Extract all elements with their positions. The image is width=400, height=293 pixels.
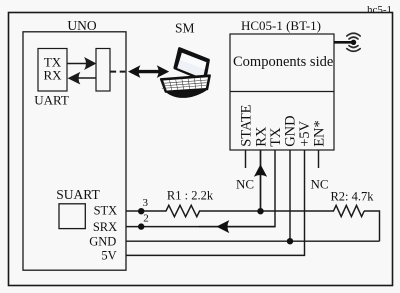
antenna feed wire <box>334 41 353 44</box>
svg-text:hc5-1: hc5-1 <box>367 4 392 16</box>
svg-text:UART: UART <box>34 93 69 108</box>
wire SRX from TX <box>126 226 275 228</box>
svg-text:GND: GND <box>89 234 116 248</box>
pin wire EN* <box>318 150 320 168</box>
svg-text:STX: STX <box>94 204 118 218</box>
arrowhead RX left <box>68 72 81 85</box>
pin wire RX with up arrow <box>254 150 267 211</box>
laptop SM icon <box>161 49 210 98</box>
svg-text:Components side: Components side <box>233 54 333 70</box>
node pin 2 <box>138 223 144 229</box>
pin wire GND <box>289 150 291 241</box>
keyboard grid <box>162 78 207 90</box>
svg-text:R1 : 2.2k: R1 : 2.2k <box>167 188 214 202</box>
HC05 divider <box>230 91 334 93</box>
pin wire STATE <box>245 150 247 168</box>
svg-text:5V: 5V <box>101 249 116 263</box>
wire R2 down to GND line <box>364 211 380 241</box>
HC05 box <box>230 34 334 150</box>
dashed wire USB to wireless arrow <box>111 71 127 73</box>
svg-text:SUART: SUART <box>56 187 100 202</box>
double arrow to laptop <box>128 65 169 78</box>
resistor R1 <box>166 205 200 216</box>
svg-text:EN*: EN* <box>311 120 327 147</box>
USB interface box <box>96 49 110 92</box>
UNO box <box>23 32 126 270</box>
pin wire +5V <box>126 150 305 255</box>
wire USB box to RX <box>78 77 96 79</box>
node RX junction <box>257 208 263 214</box>
pin wire TX <box>199 150 275 227</box>
svg-text:HC05-1 (BT-1): HC05-1 (BT-1) <box>241 18 321 33</box>
node GND junction <box>287 238 293 244</box>
svg-text:3: 3 <box>142 197 148 209</box>
svg-text:NC: NC <box>310 177 328 192</box>
wire STX to R1 <box>126 210 167 212</box>
laptop base <box>164 88 207 98</box>
arrowhead TX right <box>84 57 96 70</box>
antenna symbol <box>347 33 360 51</box>
UART TX/RX box <box>38 49 67 92</box>
svg-text:RX: RX <box>43 68 62 83</box>
svg-text:SRX: SRX <box>93 220 117 234</box>
svg-text:2: 2 <box>143 212 149 224</box>
wire TX to USB box <box>67 63 86 65</box>
node pin 3 <box>138 208 144 214</box>
arrowhead SRX left <box>216 220 229 233</box>
svg-text:STATE: STATE <box>238 104 254 146</box>
wire R1 to RX node <box>199 210 334 212</box>
lid <box>175 49 209 81</box>
svg-text:SM: SM <box>175 20 195 35</box>
svg-text:NC: NC <box>236 176 254 191</box>
svg-text:UNO: UNO <box>67 18 96 33</box>
keyboard deck <box>161 75 210 92</box>
resistor R2 <box>334 205 365 216</box>
wire GND <box>126 240 380 242</box>
SUART box <box>59 204 85 229</box>
svg-text:R2: 4.7k: R2: 4.7k <box>330 190 374 204</box>
